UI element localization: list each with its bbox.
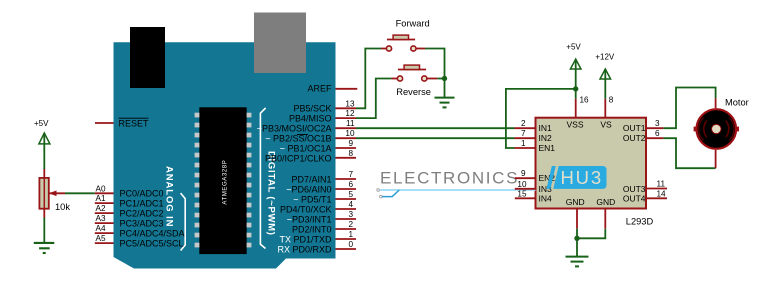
analog pin name labels PC: [120, 188, 185, 248]
svg-text:~PB3/MOSI/OC2A: ~PB3/MOSI/OC2A: [257, 123, 332, 133]
svg-text:EN1: EN1: [539, 143, 556, 153]
+12V power symbol: [595, 53, 615, 99]
digital brace: [260, 108, 265, 249]
svg-text:10: 10: [345, 129, 355, 138]
RESET stub: [95, 122, 114, 124]
svg-text:0: 0: [348, 240, 353, 249]
svg-text:A5: A5: [96, 234, 106, 243]
EN1 wire to +5V: [506, 89, 576, 148]
digital pin name labels PB: [257, 103, 332, 163]
svg-text:PC1/ADC1: PC1/ADC1: [120, 198, 164, 208]
svg-text:2: 2: [521, 119, 526, 128]
svg-text:TX PD1/TXD: TX PD1/TXD: [279, 234, 332, 244]
svg-text:Motor: Motor: [725, 98, 749, 108]
svg-text:11: 11: [657, 180, 666, 189]
analog brace: [181, 193, 186, 250]
L293D right stubs: [646, 128, 667, 198]
junction dot buttons: [442, 76, 447, 81]
svg-text:PB5/SCK: PB5/SCK: [293, 103, 331, 113]
svg-text:~ PB1/OC1A: ~ PB1/OC1A: [280, 143, 332, 153]
swoosh circles: [377, 189, 380, 192]
svg-text:PC4/ADC4/SDA: PC4/ADC4/SDA: [120, 228, 185, 238]
svg-text:DIGITAL (~PWM): DIGITAL (~PWM): [265, 151, 276, 236]
svg-text:+5V: +5V: [34, 119, 49, 128]
svg-text:7: 7: [348, 170, 353, 179]
svg-text:PD2/INT0: PD2/INT0: [292, 224, 332, 234]
svg-text:OUT2: OUT2: [623, 133, 646, 143]
potentiometer RV1 10k: [39, 178, 65, 209]
junction dot gnd: [574, 236, 579, 241]
wire OUT2 to motor bottom: [663, 138, 715, 168]
analog stubs A0..A5: [95, 193, 114, 243]
L293D chip body U2: [536, 118, 647, 209]
svg-text:L293D: L293D: [626, 217, 654, 227]
button Forward: [381, 35, 425, 51]
svg-text:PD4/T0/XCK: PD4/T0/XCK: [280, 204, 332, 214]
svg-text:ATMEGA328P: ATMEGA328P: [222, 160, 228, 205]
+5V power symbol left: [34, 119, 50, 169]
svg-text:+5V: +5V: [566, 43, 581, 52]
svg-text:RX PD0/RXD: RX PD0/RXD: [277, 244, 332, 254]
svg-text:VS: VS: [600, 120, 612, 130]
svg-text:12: 12: [345, 109, 355, 118]
svg-text:PB0/ICP1/CLKO: PB0/ICP1/CLKO: [265, 153, 332, 163]
svg-text:15: 15: [517, 189, 527, 198]
ATMEGA328P chip pins: [195, 113, 252, 248]
swoosh light line: [380, 189, 536, 191]
svg-text:PC3/ADC3: PC3/ADC3: [120, 218, 164, 228]
svg-text:PB4/MISO: PB4/MISO: [289, 113, 332, 123]
svg-text:VSS: VSS: [566, 120, 583, 130]
L293D pin texts: [539, 120, 646, 207]
svg-text:3: 3: [348, 210, 353, 219]
wire Reverse to junction: [437, 78, 444, 80]
svg-text:GND: GND: [596, 197, 615, 207]
svg-text:16: 16: [580, 96, 590, 105]
ground pot: [34, 243, 55, 253]
svg-text:7: 7: [521, 129, 526, 138]
svg-text:13: 13: [345, 99, 355, 108]
svg-text:~PD6/AIN0: ~PD6/AIN0: [286, 184, 331, 194]
svg-text:HU3: HU3: [561, 167, 603, 188]
power connector: [254, 13, 306, 74]
HUB logo slash: [547, 166, 556, 189]
svg-text:A1: A1: [96, 194, 106, 203]
right digital stubs 13..8: [336, 108, 357, 158]
svg-text:1: 1: [348, 230, 353, 239]
svg-text:6: 6: [348, 180, 353, 189]
VS pin 8 stub: [604, 99, 606, 118]
svg-text:~ PD5/T1: ~ PD5/T1: [293, 194, 331, 204]
pin number labels right: [345, 99, 355, 249]
ground L293D: [566, 257, 589, 267]
analog pin labels A0..A5: [96, 184, 106, 243]
svg-text:9: 9: [348, 139, 353, 148]
svg-text:3: 3: [655, 119, 660, 128]
wire pot to A0: [65, 192, 95, 194]
HUB logo box: [553, 166, 606, 189]
svg-text:PC0/ADC0: PC0/ADC0: [120, 188, 164, 198]
svg-text:IN1: IN1: [539, 123, 553, 133]
wire Forward to junction: [425, 49, 445, 79]
svg-text:AREF: AREF: [307, 83, 332, 93]
svg-text:~PD3/INT1: ~PD3/INT1: [287, 214, 332, 224]
GND wires join: [576, 229, 578, 239]
svg-text:9: 9: [521, 169, 526, 178]
svg-text:14: 14: [657, 189, 667, 198]
Arduino board U1: [114, 42, 336, 268]
wire pot bottom: [43, 209, 45, 218]
VSS pin 16 stub: [575, 89, 577, 99]
svg-text:Forward: Forward: [396, 18, 430, 28]
svg-text:5: 5: [348, 190, 353, 199]
svg-text:RESET: RESET: [119, 118, 150, 128]
svg-text:8: 8: [609, 96, 614, 105]
svg-text:8: 8: [348, 149, 353, 158]
svg-text:11: 11: [346, 119, 355, 128]
svg-text:ANALOG IN: ANALOG IN: [163, 166, 174, 227]
wire to ground: [576, 238, 578, 256]
wire pin11 to IN1: [356, 127, 515, 129]
svg-text:OUT1: OUT1: [623, 123, 646, 133]
wire pin10 to IN2: [356, 137, 515, 139]
wire pin13 to Forward: [356, 49, 381, 109]
svg-text:IN4: IN4: [539, 193, 553, 203]
svg-text:A2: A2: [96, 204, 106, 213]
svg-text:IN2: IN2: [539, 133, 553, 143]
digital pin name labels PD: [277, 174, 332, 254]
svg-text:2: 2: [348, 220, 353, 229]
svg-text:GND: GND: [566, 197, 585, 207]
svg-text:10k: 10k: [55, 202, 70, 212]
svg-text:4: 4: [348, 200, 353, 209]
svg-text:PC5/ADC5/SCL: PC5/ADC5/SCL: [120, 238, 184, 248]
svg-text:+12V: +12V: [595, 53, 615, 62]
wire pin12 to Reverse: [356, 79, 391, 119]
right digital stubs 7..0: [336, 179, 357, 249]
svg-text:OUT4: OUT4: [623, 193, 646, 203]
wire OUT1 to motor top: [663, 88, 715, 129]
button Reverse: [391, 65, 437, 81]
svg-text:PC2/ADC2: PC2/ADC2: [120, 208, 164, 218]
SS overline: [297, 134, 308, 136]
svg-text:10: 10: [517, 180, 527, 189]
junction dot +5V/VSS: [573, 86, 578, 91]
svg-text:OUT3: OUT3: [623, 184, 646, 194]
svg-text:A4: A4: [96, 224, 106, 233]
svg-text:PD7/AIN1: PD7/AIN1: [291, 174, 331, 184]
AREF stub: [336, 88, 358, 90]
L293D right pin numbers: [655, 119, 666, 198]
svg-text:A3: A3: [96, 214, 106, 223]
ATMEGA328P chip body: [199, 107, 246, 254]
wire junction to ground: [444, 79, 446, 98]
+5V power symbol right: [566, 43, 581, 89]
svg-text:ELECTRONICS: ELECTRONICS: [380, 168, 519, 187]
svg-text:1: 1: [521, 139, 526, 148]
ground buttons: [435, 98, 455, 108]
svg-text:6: 6: [655, 129, 660, 138]
svg-text:A0: A0: [96, 184, 106, 193]
wire red to pot top: [43, 169, 45, 178]
L293D GND stubs: [576, 209, 578, 229]
svg-text:Reverse: Reverse: [396, 87, 431, 97]
swoosh dark line: [382, 190, 399, 197]
L293D left pin numbers: [517, 119, 527, 198]
USB connector: [130, 27, 165, 88]
motor M1: [694, 109, 739, 149]
L293D left stubs: [515, 128, 536, 198]
